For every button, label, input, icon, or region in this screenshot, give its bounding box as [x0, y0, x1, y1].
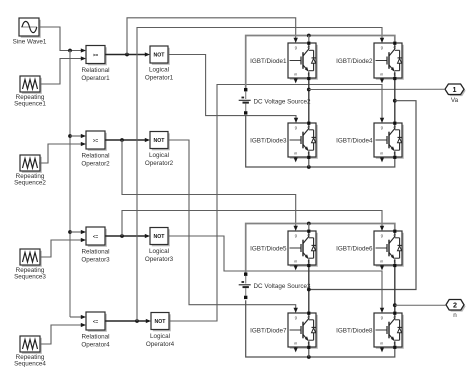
svg-text:Va: Va — [451, 97, 459, 104]
node sine tap junction at Relational Operator1 — [68, 49, 72, 53]
DC source DC Voltage Source3 (battery, bridge 2) — [239, 273, 251, 300]
comparator block Relational Operator1 (&gt;=) — [86, 46, 107, 66]
wire Logical Operator3 to IGBT/Diode8 g — [168, 236, 382, 310]
svg-text:NOT: NOT — [154, 138, 166, 144]
source block Repeating Sequence1 — [20, 76, 42, 94]
wire Logical Operator1 to IGBT/Diode3 g — [168, 55, 296, 120]
wire sine tap to Relational Operator2 input 1 — [70, 135, 84, 137]
node sine tap junction at Relational Operator3 — [68, 230, 72, 234]
svg-text:m: m — [380, 72, 383, 76]
svg-text:1: 1 — [453, 85, 457, 94]
transistor block IGBT/Diode3 — [288, 123, 318, 159]
wire Sine Wave1 output to Relational Operator1 input 1 — [39, 27, 84, 51]
svg-text:>=: >= — [93, 138, 99, 143]
svg-text:>=: >= — [93, 52, 99, 57]
unconnected m port arrow of IGBT/Diode3 — [295, 157, 297, 159]
node bridge1 right leg midpoint — [393, 99, 397, 103]
wire bridge2 right leg midpoint IGBT6 E to IGBT8 C — [394, 265, 396, 313]
comparator block Relational Operator4 (&lt;=) — [86, 312, 107, 332]
wire sine bus end to Relational Operator4 input 1 — [70, 316, 84, 318]
svg-text:C: C — [393, 234, 396, 238]
wire ch3 gate signal to IGBT/Diode6 g — [122, 211, 382, 237]
node sine tap junction at Relational Operator2 — [68, 134, 72, 138]
transistor block IGBT/Diode4 — [374, 123, 404, 159]
node ch3 gate tap — [120, 234, 124, 238]
wire Relational Operator1 to Logical Operator1 — [105, 54, 148, 56]
svg-text:C: C — [307, 316, 310, 320]
svg-text:Operator2: Operator2 — [145, 160, 174, 167]
logic block Logical Operator1 (NOT) — [150, 46, 170, 65]
svg-text:IGBT/Diode5: IGBT/Diode5 — [250, 245, 287, 252]
unconnected m port arrow of IGBT/Diode6 — [381, 265, 383, 267]
svg-text:Logical: Logical — [149, 67, 169, 74]
svg-text:m: m — [294, 72, 297, 76]
wire Relational Operator3 to Logical Operator3 — [105, 235, 148, 237]
svg-text:g: g — [381, 126, 383, 130]
source block Repeating Sequence3 — [20, 249, 42, 267]
unconnected m port arrow of IGBT/Diode7 — [295, 347, 297, 349]
node bridge2 right leg midpoint (n node) — [393, 303, 397, 307]
node bridge2 rail junction at IGBT/Diode5 C — [307, 222, 311, 226]
comparator block Relational Operator3 (&lt;=) — [86, 227, 107, 247]
svg-text:Logical: Logical — [149, 248, 169, 255]
svg-text:IGBT/Diode1: IGBT/Diode1 — [250, 58, 287, 65]
source block Repeating Sequence2 — [20, 155, 42, 173]
svg-text:NOT: NOT — [155, 319, 167, 325]
svg-text:DC Voltage Source3: DC Voltage Source3 — [254, 283, 312, 290]
wire bridge1 right midpoint to bridge2 left midpoint — [309, 101, 416, 290]
svg-text:<=: <= — [93, 234, 99, 239]
logic block Logical Operator4 (NOT) — [151, 313, 171, 332]
comparator block Relational Operator2 (&gt;=) — [86, 131, 107, 151]
node ch2 gate tap — [120, 138, 124, 142]
wire n node to output port 2 — [395, 304, 446, 306]
svg-text:g: g — [295, 316, 297, 320]
output port 1 (Va) — [445, 84, 466, 96]
svg-text:Relational: Relational — [81, 248, 109, 255]
wire bridge2 left leg midpoint IGBT5 E to IGBT7 C — [308, 265, 310, 313]
transistor block IGBT/Diode1 — [288, 43, 318, 80]
svg-text:IGBT/Diode4: IGBT/Diode4 — [336, 137, 373, 144]
wire sine tap to Relational Operator3 input 1 — [70, 231, 84, 233]
svg-text:Operator1: Operator1 — [145, 75, 174, 82]
svg-text:C: C — [307, 46, 310, 50]
wire Va node to output port 1 — [309, 88, 445, 90]
wire Repeating Sequence4 to Relational Operator4 input 2 — [40, 325, 84, 344]
svg-text:IGBT/Diode2: IGBT/Diode2 — [336, 58, 373, 65]
svg-text:IGBT/Diode8: IGBT/Diode8 — [336, 327, 373, 334]
svg-text:C: C — [393, 46, 396, 50]
unconnected m port arrow of IGBT/Diode8 — [381, 347, 383, 349]
output port 2 (n) — [446, 300, 466, 312]
wire Logical Operator2 to IGBT/Diode7 g — [168, 140, 296, 310]
wire bridge1 left leg midpoint IGBT1 E to IGBT3 C — [308, 78, 310, 123]
svg-text:Relational: Relational — [81, 67, 109, 74]
transistor block IGBT/Diode2 — [374, 43, 404, 80]
svg-text:m: m — [294, 259, 297, 263]
wire Repeating Sequence2 to Relational Operator2 input 2 — [39, 144, 84, 163]
unconnected m port arrow of IGBT/Diode5 — [295, 265, 297, 267]
svg-text:m: m — [294, 151, 297, 155]
svg-text:IGBT/Diode7: IGBT/Diode7 — [250, 327, 287, 334]
transistor block IGBT/Diode5 — [288, 231, 318, 267]
svg-text:Operator4: Operator4 — [81, 341, 110, 348]
svg-text:m: m — [380, 259, 383, 263]
node bridge2 left leg midpoint — [307, 288, 311, 292]
svg-text:g: g — [381, 234, 383, 238]
wire Relational Operator4 to Logical Operator4 — [105, 320, 149, 322]
svg-text:Operator1: Operator1 — [81, 75, 110, 82]
wire Repeating Sequence3 to Relational Operator3 input 2 — [40, 240, 84, 257]
transistor block IGBT/Diode8 — [374, 313, 404, 349]
wire Logical Operator4 to IGBT/Diode4 g — [169, 85, 382, 322]
wire bridge2 negative DC rail (battery - to IGBT7 E and IGBT8 E) — [246, 300, 395, 357]
transistor block IGBT/Diode6 — [374, 231, 404, 267]
node ch1 gate tap — [125, 53, 129, 57]
wire Repeating Sequence1 to Relational Operator1 input 2 — [40, 59, 84, 85]
svg-text:NOT: NOT — [154, 53, 166, 59]
logic block Logical Operator2 (NOT) — [150, 132, 170, 151]
transistor block IGBT/Diode7 — [288, 313, 318, 349]
svg-text:g: g — [295, 46, 297, 50]
wire sine distribution vertical bus — [69, 51, 71, 318]
svg-text:DC Voltage Source2: DC Voltage Source2 — [254, 98, 312, 105]
svg-text:Operator2: Operator2 — [81, 160, 110, 167]
svg-text:Operator4: Operator4 — [146, 341, 175, 348]
wire bridge1 negative DC rail (battery - to IGBT3 E and IGBT4 E) — [246, 115, 395, 167]
unconnected m port arrow of IGBT/Diode4 — [381, 157, 383, 159]
svg-text:n: n — [453, 312, 457, 319]
svg-text:m: m — [294, 341, 297, 345]
svg-text:g: g — [295, 126, 297, 130]
wire ch1 gate signal to IGBT/Diode1 g — [127, 18, 296, 55]
source block Sine Wave1 — [19, 18, 41, 38]
wire bridge1 positive DC rail (battery + to IGBT1 C and IGBT2 C) — [246, 36, 395, 89]
unconnected m port arrow of IGBT/Diode2 — [381, 78, 383, 80]
svg-text:C: C — [307, 234, 310, 238]
node bridge1 negative rail junction at IGBT/Diode3 E — [307, 165, 311, 169]
svg-text:IGBT/Diode3: IGBT/Diode3 — [250, 137, 287, 144]
svg-text:g: g — [295, 234, 297, 238]
svg-text:NOT: NOT — [154, 234, 166, 240]
wire bridge1 right leg midpoint IGBT2 E to IGBT4 C — [394, 78, 396, 123]
svg-text:g: g — [381, 316, 383, 320]
svg-text:Sequence1: Sequence1 — [14, 101, 46, 108]
svg-text:C: C — [307, 126, 310, 130]
logic block Logical Operator3 (NOT) — [150, 228, 170, 247]
DC source DC Voltage Source2 (battery, bridge 1) — [239, 88, 251, 115]
svg-text:2: 2 — [453, 300, 457, 309]
svg-text:Relational: Relational — [81, 333, 109, 340]
svg-text:Operator3: Operator3 — [81, 256, 110, 263]
svg-text:Operator3: Operator3 — [145, 256, 174, 263]
svg-text:C: C — [393, 316, 396, 320]
svg-text:IGBT/Diode6: IGBT/Diode6 — [336, 245, 373, 252]
svg-text:m: m — [380, 151, 383, 155]
svg-text:Relational: Relational — [81, 152, 109, 159]
svg-text:Sequence2: Sequence2 — [14, 180, 46, 187]
unconnected m port arrow of IGBT/Diode1 — [295, 78, 297, 80]
svg-text:<=: <= — [93, 319, 99, 324]
wire bridge2 positive DC rail (battery + to IGBT5 C and IGBT6 C) — [246, 224, 395, 273]
node bridge2 negative rail junction at IGBT/Diode7 E — [307, 355, 311, 359]
node bridge1 left leg midpoint (Va node) — [307, 88, 311, 92]
svg-text:Sequence4: Sequence4 — [14, 361, 46, 368]
svg-text:Logical: Logical — [149, 152, 169, 159]
wire ch4 gate signal to IGBT/Diode2 g — [137, 28, 382, 322]
node ch4 gate tap — [135, 319, 139, 323]
node bridge1 rail junction at IGBT/Diode1 C — [307, 34, 311, 38]
svg-text:g: g — [381, 46, 383, 50]
svg-text:Logical: Logical — [150, 333, 170, 340]
wire ch2 gate signal to IGBT/Diode5 g — [122, 140, 296, 228]
svg-text:m: m — [380, 341, 383, 345]
svg-text:Sequence3: Sequence3 — [14, 274, 46, 281]
source block Repeating Sequence4 — [20, 336, 42, 354]
svg-text:C: C — [393, 126, 396, 130]
wire Relational Operator2 to Logical Operator2 — [105, 139, 148, 141]
svg-text:Sine Wave1: Sine Wave1 — [13, 39, 47, 46]
